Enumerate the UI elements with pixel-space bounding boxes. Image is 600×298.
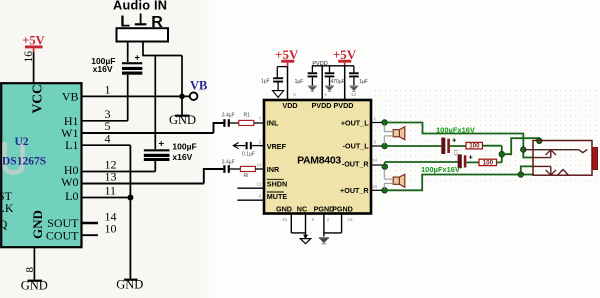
svg-text:L1: L1 <box>65 138 78 152</box>
svg-text:VDD: VDD <box>282 101 297 110</box>
svg-text:3.4µF: 3.4µF <box>222 113 235 119</box>
svg-text:12: 12 <box>257 182 263 187</box>
svg-text:470µF: 470µF <box>331 79 345 85</box>
svg-text:Audio IN: Audio IN <box>113 0 167 13</box>
svg-text:GND: GND <box>276 204 292 213</box>
svg-text:W0: W0 <box>61 175 78 189</box>
svg-text:1µF: 1µF <box>261 79 270 85</box>
svg-text:10: 10 <box>105 222 117 236</box>
svg-text:INR: INR <box>267 165 280 174</box>
svg-text:8: 8 <box>24 267 36 273</box>
svg-text:VB: VB <box>62 90 79 104</box>
svg-text:x16V: x16V <box>93 64 113 74</box>
svg-text:16: 16 <box>372 184 378 189</box>
svg-text:Ri: Ri <box>244 173 249 179</box>
svg-text:DQ: DQ <box>0 217 8 231</box>
svg-text:PVDD: PVDD <box>312 101 332 110</box>
svg-text:MUTE: MUTE <box>267 192 288 201</box>
svg-text:+5V: +5V <box>22 33 44 47</box>
svg-text:GND: GND <box>21 279 48 293</box>
svg-text:GND: GND <box>30 210 45 239</box>
svg-text:CLK: CLK <box>0 201 14 215</box>
svg-text:L0: L0 <box>65 189 78 203</box>
svg-text:16: 16 <box>348 217 354 222</box>
svg-text:INL: INL <box>267 119 279 128</box>
svg-text:100µF: 100µF <box>172 141 196 151</box>
svg-text:1: 1 <box>105 83 111 97</box>
svg-text:1µF: 1µF <box>295 79 304 85</box>
svg-text:10: 10 <box>257 163 263 168</box>
svg-text:PGND: PGND <box>332 204 353 213</box>
svg-text:GND: GND <box>169 113 196 127</box>
svg-text:PVDD: PVDD <box>334 101 354 110</box>
svg-text:100: 100 <box>483 159 494 166</box>
svg-text:100µFx16V: 100µFx16V <box>421 165 460 174</box>
svg-text:100: 100 <box>469 143 480 150</box>
svg-text:13: 13 <box>351 92 357 97</box>
svg-text:R1: R1 <box>244 113 251 119</box>
svg-text:+: + <box>452 136 457 145</box>
svg-text:NC: NC <box>297 204 307 213</box>
svg-text:+: + <box>159 139 165 150</box>
svg-text:+: + <box>135 53 141 64</box>
svg-text:-OUT_R: -OUT_R <box>342 160 370 169</box>
svg-text:VREF: VREF <box>267 142 287 151</box>
svg-text:14: 14 <box>372 158 378 163</box>
svg-text:x16V: x16V <box>172 152 192 162</box>
svg-text:15: 15 <box>282 217 288 222</box>
svg-text:100µFx16V: 100µFx16V <box>436 125 475 134</box>
svg-text:+OUT_R: +OUT_R <box>340 186 369 195</box>
svg-text:PAM8403: PAM8403 <box>297 155 341 167</box>
svg-text:1µF: 1µF <box>359 79 368 85</box>
svg-text:COUT: COUT <box>46 229 79 243</box>
svg-text:0.1µF: 0.1µF <box>242 151 255 157</box>
svg-text:16: 16 <box>23 51 35 63</box>
svg-text:DS1267S: DS1267S <box>2 155 46 167</box>
svg-text:GND: GND <box>116 277 143 291</box>
svg-text:11: 11 <box>105 184 117 198</box>
svg-text:3.4µF: 3.4µF <box>222 159 235 165</box>
svg-text:+: + <box>469 152 474 161</box>
svg-text:+OUT_L: +OUT_L <box>341 118 369 127</box>
svg-text:-OUT_L: -OUT_L <box>343 142 370 151</box>
svg-text:VB: VB <box>190 79 207 93</box>
svg-text:VCC: VCC <box>30 84 45 113</box>
svg-text:U2: U2 <box>15 136 29 148</box>
svg-text:SHDN: SHDN <box>267 180 287 189</box>
